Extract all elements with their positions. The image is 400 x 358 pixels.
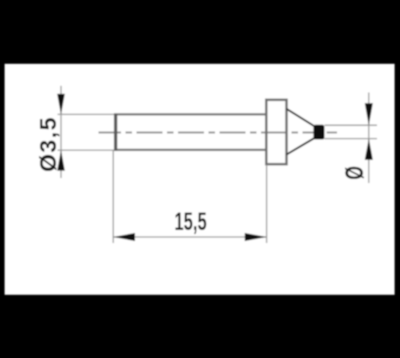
svg-text:Ø3,5: Ø3,5: [35, 116, 61, 172]
dimension Ø3,5: extension line top: [58, 113, 115, 115]
svg-text:15,5: 15,5: [174, 208, 206, 236]
dimension 15,5: arrow left: [113, 233, 135, 241]
diamond grit: [313, 125, 324, 140]
dimension Ø3,5: arrow bottom: [57, 150, 65, 171]
flange: [266, 100, 286, 164]
dimension 15,5: extension line left: [112, 151, 114, 244]
cone tip: [287, 109, 315, 155]
dimension Ø3,5: arrow top: [57, 94, 65, 115]
shank body: [114, 114, 266, 151]
svg-text:Ø: Ø: [341, 166, 369, 180]
dimension Ø tip: extension line bottom: [325, 138, 378, 140]
dimension 15,5: extension line right: [266, 165, 268, 243]
centerline: [99, 132, 325, 134]
drawing sheet: [5, 64, 395, 295]
dimension Ø tip: arrow bottom: [365, 139, 373, 160]
dimension 15,5: arrow right: [245, 233, 267, 241]
dimension Ø tip: dimension line: [368, 93, 370, 184]
dimension Ø tip: arrow top: [365, 103, 373, 125]
dimension 15,5: dimension line: [113, 236, 266, 238]
dimension Ø3,5: extension line bottom: [58, 149, 115, 151]
dimension Ø3,5: dimension line: [60, 86, 62, 178]
dimension Ø tip: extension line top: [325, 124, 378, 126]
